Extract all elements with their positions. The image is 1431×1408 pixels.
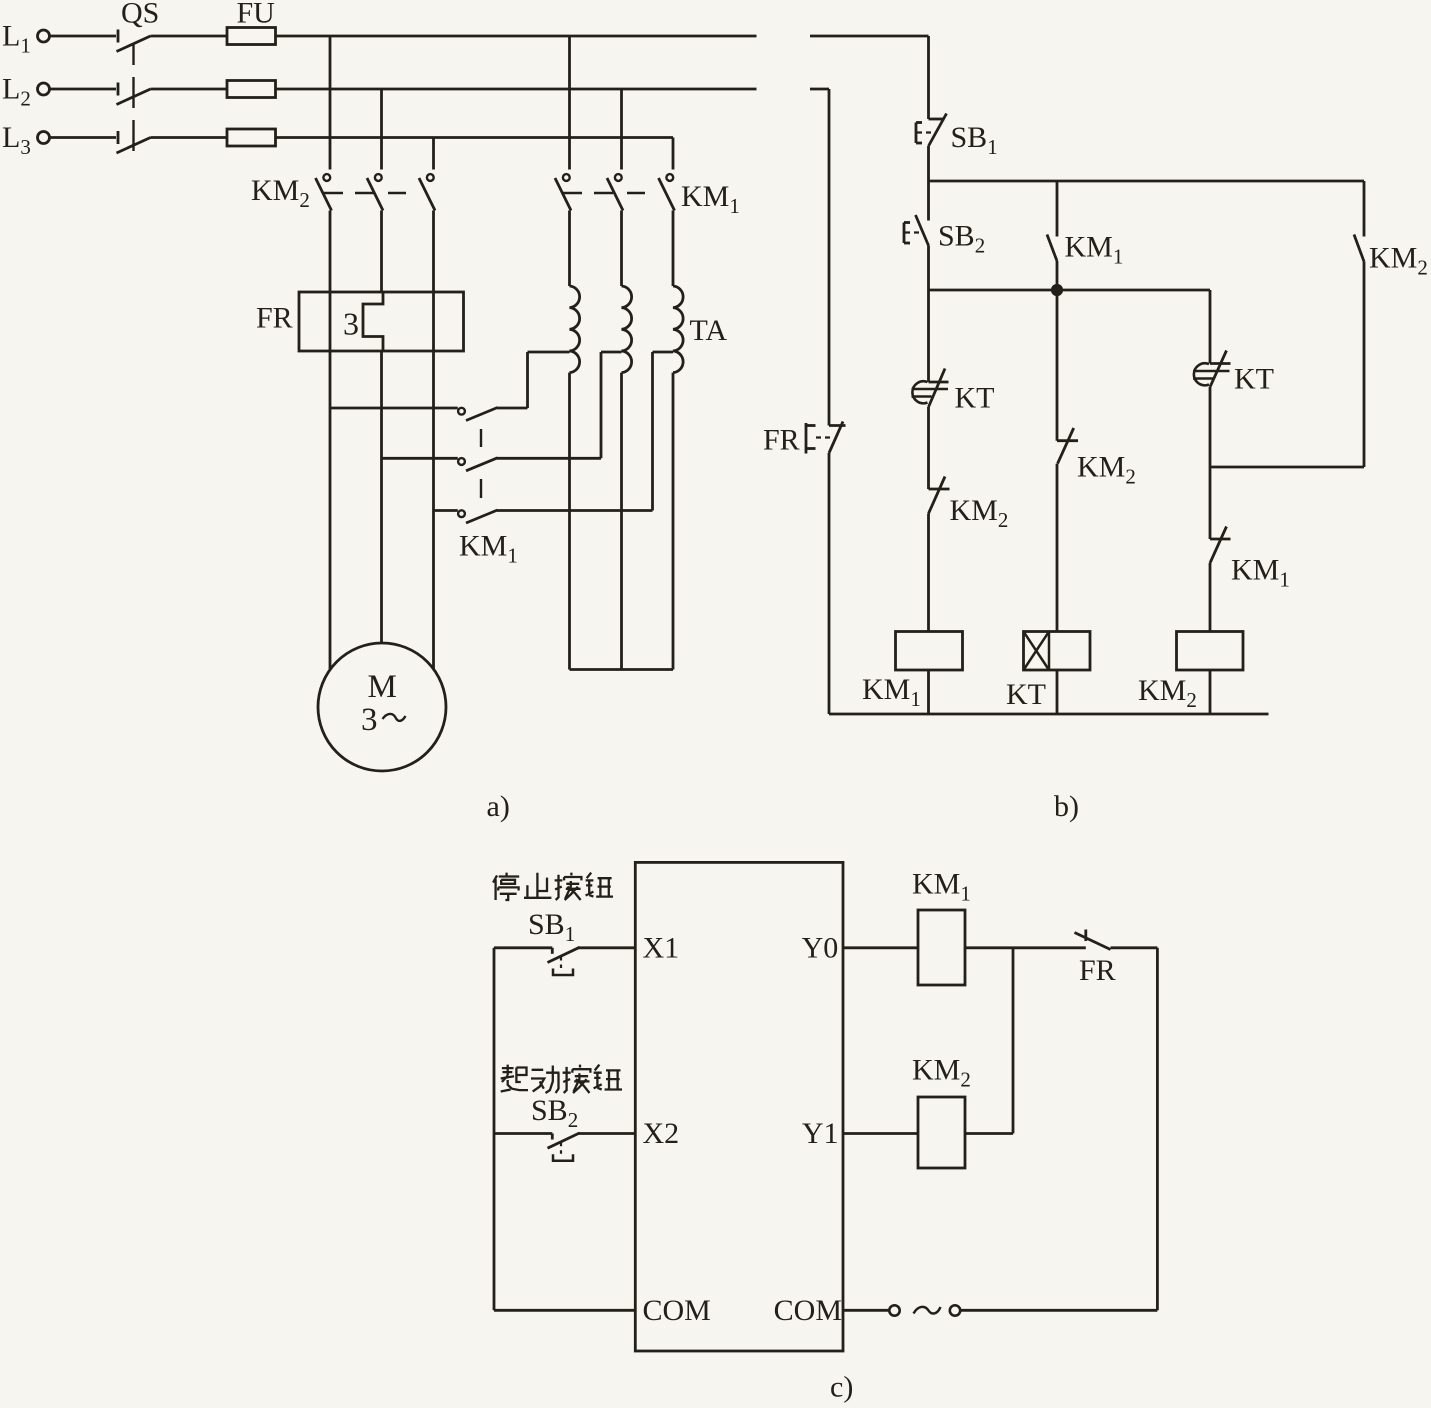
wire: [1363, 262, 1366, 468]
wire: [620, 373, 623, 670]
wire: [1209, 290, 1212, 364]
wire: [927, 36, 930, 119]
switch QS linkage: [132, 43, 134, 151]
pushbutton SB2: [904, 215, 929, 246]
label start-button text: [501, 1065, 622, 1093]
thermal relay FR box: [299, 292, 464, 351]
switch QS pole blade: [117, 36, 151, 52]
svg-text:c): c): [830, 1371, 853, 1404]
contactor KM1c coil label: [912, 868, 971, 906]
contactor KM1 coil: [896, 632, 963, 671]
contactor KM1 main contact: [607, 174, 623, 210]
contactor KM2 coil label: [1138, 674, 1197, 712]
wire: [965, 1132, 1013, 1135]
autotransformer TA label: [690, 314, 728, 347]
wire: [1209, 670, 1212, 714]
contactor KM1 main contact: [659, 174, 675, 210]
contactor KM1 contact a: [458, 408, 497, 421]
PLC input X1 label: [643, 931, 680, 964]
node junction dot: [1051, 284, 1062, 295]
time relay KT coil label: [1006, 678, 1046, 711]
wire: [528, 351, 570, 354]
wire: [810, 88, 829, 91]
node L1 label: [2, 20, 31, 58]
thermal relay FR count 3: [343, 306, 359, 342]
svg-text:TA: TA: [690, 314, 728, 347]
wire: [50, 88, 116, 91]
wire: [494, 1309, 635, 1312]
motor M 3-phase label: [361, 702, 406, 738]
svg-text:3: 3: [343, 306, 359, 342]
svg-text:COM: COM: [774, 1294, 842, 1327]
wire: [276, 88, 757, 91]
time relay KT contact left: [912, 369, 949, 408]
wire: [497, 509, 653, 512]
wire TA star point: [570, 668, 674, 671]
wire: [329, 351, 332, 670]
contactor KM1 NO label: [1065, 231, 1124, 269]
svg-text:FR: FR: [256, 302, 293, 335]
fuse FU: [227, 28, 276, 45]
wire: [493, 948, 496, 1311]
wire: [672, 138, 675, 170]
fuse FU: [227, 81, 276, 98]
wire: [1056, 464, 1059, 632]
contactor KM1 main label: [681, 180, 740, 218]
wire: [434, 509, 458, 512]
contactor KM1 NC contact: [1210, 527, 1231, 564]
wire: [432, 351, 435, 669]
pushbutton SB1 label: [951, 121, 998, 159]
contactor KM2 NO label: [1369, 242, 1428, 280]
node L2 label: [2, 73, 31, 111]
pushbutton SB2c: [548, 1133, 580, 1161]
switch QS pole blade: [117, 138, 151, 154]
wire: [1210, 466, 1364, 469]
switch QS pole blade: [117, 89, 151, 105]
PLC COM right label: [774, 1294, 842, 1327]
pushbutton SB2 label: [938, 220, 985, 258]
terminal L1: [38, 30, 50, 42]
contactor KM1 contact b: [458, 458, 497, 471]
label a): [487, 790, 510, 823]
thermal relay FR NC contact: [806, 422, 846, 454]
switch QS label: [121, 0, 159, 30]
time relay KT contact right label: [1234, 363, 1274, 396]
wire: [828, 453, 831, 714]
PLC output Y1 label: [802, 1117, 839, 1150]
contactor KM2 main contact: [316, 174, 332, 210]
autotransformer TA coil: [570, 286, 580, 373]
wire: [526, 352, 529, 408]
wire: [1209, 563, 1212, 632]
svg-text:FR: FR: [1079, 954, 1116, 987]
contactor KM1 main contact: [555, 174, 571, 210]
wire: [1363, 181, 1366, 237]
contactor KM1c coil: [918, 910, 965, 985]
pushbutton SB1c: [548, 947, 580, 975]
wire: [927, 246, 930, 291]
wire: [927, 514, 930, 632]
wire: [497, 457, 601, 460]
wire: [929, 180, 1365, 183]
wire: [672, 211, 675, 287]
wire: [432, 292, 435, 351]
contactor KM1 label a: [459, 530, 518, 568]
fuse FU: [227, 129, 276, 146]
wire: [929, 289, 1211, 292]
wire: [1012, 948, 1015, 1134]
svg-text:M: M: [368, 669, 397, 705]
contactor KM1 NO contact: [1047, 235, 1057, 262]
contactor KM1 NC label: [1231, 554, 1290, 592]
thermal relay FR contact label: [763, 424, 800, 457]
fuse FU label: [237, 0, 276, 30]
wire: [1156, 948, 1159, 1311]
terminal L3: [38, 132, 50, 144]
PLC box: [635, 862, 843, 1351]
wire: [276, 35, 757, 38]
wire: [568, 36, 571, 170]
terminal AC left: [889, 1305, 899, 1315]
wire: [651, 352, 654, 511]
wire: [1056, 290, 1059, 441]
wire: [578, 1132, 635, 1135]
wire: [843, 1132, 918, 1135]
wire: [568, 211, 571, 287]
svg-text:KT: KT: [1234, 363, 1274, 396]
svg-text:COM: COM: [643, 1294, 711, 1327]
wire: [620, 89, 623, 170]
motor M label: [368, 669, 397, 705]
wire: [329, 211, 332, 293]
wire: [965, 946, 1086, 949]
svg-text:Y1: Y1: [802, 1117, 839, 1150]
contactor KM2 NC label: [950, 494, 1009, 532]
wire: [843, 1309, 889, 1312]
wire: [927, 146, 930, 181]
svg-text:X1: X1: [643, 931, 680, 964]
pushbutton SB1c label: [528, 908, 575, 946]
wire: [927, 290, 930, 382]
PLC output Y0 label: [802, 931, 839, 964]
thermal relay FR label: [256, 302, 293, 335]
contactor KM2 main label: [251, 174, 310, 212]
wire: [494, 1132, 552, 1135]
svg-text:X2: X2: [643, 1117, 680, 1150]
wire: [276, 136, 674, 139]
contactor KM2 NC contact: [929, 477, 950, 514]
wire: [50, 136, 116, 139]
contactor KM1 linkage: [563, 192, 645, 194]
wire: [151, 88, 228, 91]
contactor KM1 linkage b: [480, 429, 482, 498]
wire: [329, 292, 332, 351]
wire bottom rail: [829, 713, 1269, 716]
wire: [672, 373, 675, 670]
wire: [380, 211, 383, 293]
svg-text:b): b): [1054, 790, 1079, 823]
wire: [1056, 181, 1059, 237]
contactor KM2 NC mid contact: [1057, 428, 1078, 464]
contactor KM2 main contact: [419, 174, 435, 210]
wire: [329, 36, 332, 170]
switch QS pole tick: [117, 131, 120, 144]
terminal L2: [38, 83, 50, 95]
wire: [380, 89, 383, 170]
svg-text:KT: KT: [1006, 678, 1046, 711]
motor M circle: [318, 643, 446, 771]
thermal relay FR heater: [363, 292, 383, 351]
PLC input X2 label: [643, 1117, 680, 1150]
wire: [1056, 670, 1059, 714]
svg-text:FU: FU: [237, 0, 276, 30]
wire: [578, 946, 635, 949]
time relay KT coil: [1024, 632, 1091, 671]
contactor KM2 coil: [1177, 632, 1244, 671]
wire: [50, 35, 116, 38]
thermal relay FRc label: [1079, 954, 1116, 987]
wire: [497, 407, 528, 410]
pushbutton SB2c label: [531, 1094, 578, 1132]
svg-text:Y0: Y0: [802, 931, 839, 964]
wire: [927, 670, 930, 714]
wire: [432, 138, 435, 170]
contactor KM2 NC mid label: [1077, 451, 1136, 489]
svg-text:a): a): [487, 790, 510, 823]
wire: [568, 373, 571, 670]
wire: [601, 351, 622, 354]
switch QS pole tick: [117, 83, 120, 96]
contactor KM1 coil label: [862, 673, 921, 711]
terminal AC right: [950, 1305, 960, 1315]
label stop-button text: [493, 873, 613, 900]
wire: [960, 1309, 1157, 1312]
svg-text:QS: QS: [121, 0, 159, 30]
time relay KT contact label: [955, 382, 995, 415]
contactor KM2c coil label: [912, 1054, 971, 1092]
wire: [151, 136, 228, 139]
thermal relay FRc contact: [1075, 930, 1111, 950]
wire: [828, 89, 831, 426]
wire: [1056, 261, 1059, 290]
contactor KM1 contact c: [458, 510, 497, 523]
wire: [382, 457, 458, 460]
label b): [1054, 790, 1079, 823]
wire: [330, 407, 458, 410]
contactor KM2c coil: [918, 1097, 965, 1168]
pushbutton SB1: [916, 114, 947, 147]
wire: [843, 946, 918, 949]
wire: [1209, 387, 1212, 539]
wire: [151, 35, 228, 38]
PLC COM left label: [643, 1294, 711, 1327]
wire: [810, 35, 929, 38]
wire: [653, 351, 674, 354]
svg-text:3: 3: [361, 702, 378, 738]
wire: [432, 211, 435, 293]
wire: [927, 181, 930, 221]
svg-text:FR: FR: [763, 424, 800, 457]
autotransformer TA coil: [673, 286, 683, 373]
wire: [600, 352, 603, 458]
autotransformer TA coil: [622, 286, 632, 373]
svg-text:KT: KT: [955, 382, 995, 415]
switch QS pole tick: [117, 30, 120, 43]
time relay KT contact right: [1193, 351, 1231, 388]
wire: [620, 211, 623, 287]
contactor KM2 main contact: [367, 174, 383, 210]
contactor KM2 linkage: [324, 192, 406, 194]
node L3 label: [2, 121, 31, 159]
wire: [494, 946, 552, 949]
contactor KM2 NO contact: [1354, 235, 1364, 262]
wire: [927, 407, 930, 489]
wire: [1111, 946, 1158, 949]
label c): [830, 1371, 853, 1404]
wire: [380, 351, 383, 643]
label AC tilde: [914, 1307, 941, 1314]
